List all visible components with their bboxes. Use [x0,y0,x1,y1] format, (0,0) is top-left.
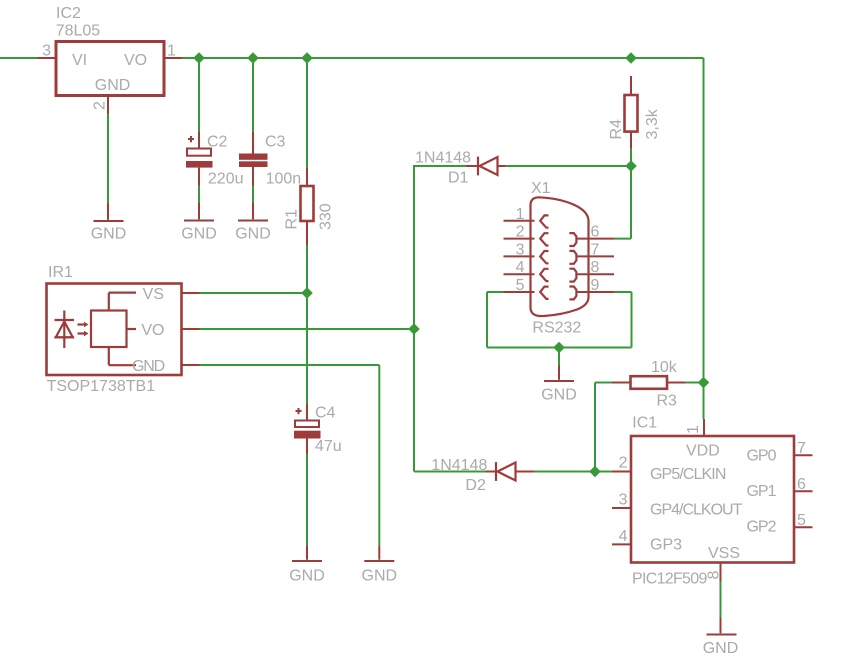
svg-text:9: 9 [591,277,600,294]
svg-text:GND: GND [95,77,131,94]
wire IR GND net horizontal [200,364,380,366]
capacitor C4 47u [294,404,342,455]
svg-text:VDD: VDD [686,443,720,460]
svg-text:1: 1 [685,425,702,434]
op-amp IC2 78L05 regulator box [56,5,164,96]
pin 1 stub IC1 [703,419,705,436]
svg-text:47u: 47u [315,438,342,455]
svg-text:GND: GND [362,568,398,585]
svg-text:C3: C3 [265,134,286,151]
svg-text:GP0: GP0 [746,448,776,465]
wire D2 right to IC1 pin2 [534,471,612,473]
ground GND under IC1 [703,618,739,658]
svg-text:7: 7 [797,440,806,457]
node junction at RS232 GND [553,342,565,354]
node junction at VS C4 [301,287,313,299]
wire C3 drop [252,58,254,132]
svg-text:6: 6 [591,224,600,241]
resistor R4 3,3k [608,76,661,149]
pin 5 stub IC1 [794,526,813,528]
wire top rail left segment [0,57,38,59]
svg-text:5: 5 [516,277,525,294]
pin 4 stub IC1 [612,543,631,545]
ground GND under IR net [362,546,398,585]
svg-text:GP2: GP2 [746,519,776,536]
svg-text:GND: GND [132,358,165,375]
svg-text:220u: 220u [208,170,244,187]
wire D2 left segment [414,471,486,473]
svg-text:8: 8 [591,259,600,276]
capacitor C2 [186,132,243,188]
pin GND stub IR1 [182,364,200,366]
IC1 PIC12F509 [631,414,794,587]
svg-text:GND: GND [541,387,577,404]
node junction at C2 top [193,52,205,64]
wire X1 pin6 stub join [614,238,631,240]
node junction at R3 right rail [698,377,710,389]
pin 7 X1 [576,255,614,257]
IR receiver IR1 TSOP1738TB1 [47,264,182,395]
wire X1 pin5 down [486,292,488,348]
svg-text:3: 3 [516,241,525,258]
svg-text:GND: GND [235,225,271,242]
svg-text:C4: C4 [315,404,336,421]
pin 3 stub IC2 [38,57,57,59]
ground GND under C2 [181,203,217,242]
svg-text:3: 3 [42,43,51,60]
capacitor C3 [239,132,301,188]
svg-text:1N4148: 1N4148 [431,457,487,474]
svg-text:2: 2 [92,101,109,110]
wire C3 to GND [252,186,254,204]
svg-text:78L05: 78L05 [56,23,101,40]
svg-text:VO: VO [141,322,164,339]
ground GND under IC2 [91,203,127,242]
pin VS stub IR1 [182,292,200,294]
resistor R1 330 [284,168,335,245]
node junction at VO D1D2 [408,323,420,335]
wire R3 left segment [595,382,612,384]
svg-text:2: 2 [619,455,628,472]
node junction at R4 top [625,52,637,64]
connector X1 RS232 DB9 outline [531,180,589,337]
wire right rail vertical [703,58,705,419]
node junction at R4 bottom D1 [625,160,637,172]
svg-text:8: 8 [706,571,723,580]
svg-text:2: 2 [516,224,525,241]
wire R4 bottom segment [630,149,632,166]
svg-text:3: 3 [619,492,628,509]
svg-text:R1: R1 [284,209,301,230]
pin 6 X1 [576,238,614,240]
pin 2 stub IC1 [612,471,631,473]
wire top rail main segment [182,57,704,59]
pin 8 stub IC1 [720,563,722,582]
node junction at R3 left IC1 pin2 [589,466,601,478]
svg-text:R3: R3 [657,393,678,410]
wire node to X1 pin6 vertical [630,166,632,239]
inner box IR1 [91,311,127,348]
diode D2 1N4148 [431,457,534,494]
pin 7 stub IC1 [794,454,813,456]
wire vertical D1 to D2 [413,165,415,472]
wire D1 left segment [413,165,466,167]
svg-text:330: 330 [318,203,335,230]
svg-text:IR1: IR1 [48,264,73,281]
wire VS net [200,292,308,294]
svg-text:VS: VS [143,286,164,303]
ground GND under C4 [289,546,325,585]
svg-text:GP3: GP3 [650,537,682,554]
pin 4 X1 [504,273,535,275]
svg-text:X1: X1 [531,180,551,197]
IR arrows [78,323,85,325]
diode D1 1N4148 [415,150,505,187]
svg-text:5: 5 [797,512,806,529]
svg-text:GP4/CLKOUT: GP4/CLKOUT [650,502,743,519]
pin 6 stub IC1 [794,490,813,492]
svg-text:R4: R4 [608,119,625,140]
pin 3 X1 [504,255,535,257]
node junction at C3 top [247,52,259,64]
svg-text:GP5/CLKIN: GP5/CLKIN [650,466,726,483]
pin 2 stub IC2 [107,96,109,114]
ground GND under C3 [235,203,271,242]
pin 8 X1 [576,273,614,275]
wire VS node to C4 [306,293,308,404]
svg-text:GND: GND [289,568,325,585]
svg-text:IC1: IC1 [632,414,657,431]
svg-text:3,3k: 3,3k [644,108,661,139]
wire X1 pin9 down [631,292,633,348]
wire X1 pin9 stub join [614,291,632,293]
svg-text:D1: D1 [448,170,469,187]
pin 3 stub IC1 [612,507,631,509]
pin 1 stub IC2 [164,57,182,59]
svg-text:100n: 100n [266,170,302,187]
svg-text:TSOP1738TB1: TSOP1738TB1 [47,378,156,395]
node junction at R1 top [301,52,313,64]
wire RS232 GND drop [558,348,560,366]
wire IR GND net vertical [378,365,380,546]
svg-text:1: 1 [516,206,525,223]
wire R3 right segment [685,382,704,384]
pin 9 X1 [576,291,614,293]
pin 1 X1 [504,220,535,222]
svg-text:PIC12F509: PIC12F509 [632,571,707,588]
svg-text:4: 4 [516,259,525,276]
pin 5 X1 [504,291,535,293]
svg-text:1N4148: 1N4148 [415,150,471,167]
svg-text:D2: D2 [465,477,486,494]
wire VO net [200,328,415,330]
svg-text:C2: C2 [207,134,228,151]
svg-text:VO: VO [124,52,147,69]
wire C2 drop [198,58,200,132]
wire X1 pin5 stub join [487,291,504,293]
wire R1 bottom to VS node [306,245,308,293]
pin 2 X1 [504,238,535,240]
svg-text:GND: GND [91,225,127,242]
svg-text:10k: 10k [651,359,678,376]
pin VO stub IR1 [182,328,200,330]
svg-text:RS232: RS232 [532,320,581,337]
svg-text:1: 1 [167,43,176,60]
svg-text:GND: GND [703,640,739,657]
wire C4 to GND [306,454,308,546]
svg-text:GP1: GP1 [746,483,776,500]
svg-text:GND: GND [181,225,217,242]
resistor R3 10k [612,359,685,410]
svg-text:6: 6 [797,476,806,493]
wire IC2 pin2 to GND [107,114,109,204]
svg-text:4: 4 [619,528,628,545]
svg-text:VI: VI [72,52,87,69]
wire R3 left drop [594,383,596,472]
svg-text:7: 7 [591,241,600,258]
photodiode symbol inside IR1 [63,311,65,349]
wire RS232 bottom horizontal [487,347,632,349]
svg-text:VSS: VSS [708,545,740,562]
ground GND under RS232 [541,366,577,404]
wire R1 drop [306,58,308,168]
svg-text:IC2: IC2 [56,5,81,22]
wire C2 to GND [198,186,200,204]
wire IC1 VSS to GND [720,582,722,618]
wire D1 right to node [505,165,631,167]
